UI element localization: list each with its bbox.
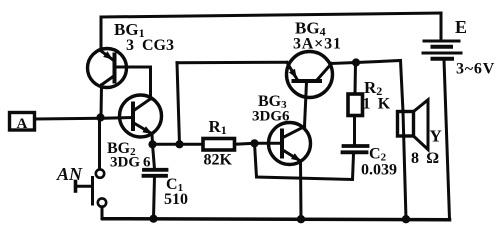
wire top rail bbox=[101, 13, 441, 17]
wire BG4 collector to speaker corner bbox=[332, 61, 404, 112]
svg-text:A: A bbox=[17, 116, 28, 132]
label 3 CG 3 bbox=[126, 37, 174, 54]
svg-text:82K: 82K bbox=[204, 152, 233, 169]
svg-text:E: E bbox=[455, 17, 467, 37]
svg-text:1 K: 1 K bbox=[363, 96, 391, 113]
wire AN upper lead bbox=[98, 118, 101, 169]
transistor BG2 bbox=[101, 95, 162, 137]
wire R2 top lead bbox=[354, 63, 358, 95]
terminal A box bbox=[10, 113, 35, 133]
node junction vertical / R1 rail bbox=[175, 140, 183, 148]
label C2 bbox=[369, 146, 387, 164]
label 3A x 31 bbox=[293, 36, 342, 53]
wire R1 right to BG3 base bbox=[235, 143, 269, 144]
label 3DG6 BG2 bbox=[110, 155, 151, 171]
transistor BG3 bbox=[269, 123, 311, 165]
wire BG1 base to BG2 collector bbox=[127, 67, 151, 99]
wire BG3 emitter to ground bbox=[299, 161, 303, 219]
label Y bbox=[430, 127, 442, 146]
label R2 bbox=[364, 78, 382, 98]
svg-text:3DG6: 3DG6 bbox=[252, 109, 290, 125]
wire bottom rail (ground return) bbox=[103, 219, 450, 220]
label 510 bbox=[164, 191, 188, 208]
resistor R2 bbox=[348, 94, 363, 116]
label 82K bbox=[204, 152, 233, 169]
label 0.039 bbox=[361, 162, 397, 179]
transistor BG1 bbox=[88, 49, 127, 88]
label BG2 bbox=[107, 140, 136, 158]
label 8 ohm bbox=[411, 150, 439, 167]
label 3DG6 BG3 bbox=[252, 109, 290, 125]
node junction speaker on bottom rail bbox=[402, 215, 410, 223]
svg-text:3 CG3: 3 CG3 bbox=[126, 37, 174, 54]
svg-text:510: 510 bbox=[164, 191, 188, 208]
label 1 K bbox=[363, 96, 391, 113]
switch AN bbox=[76, 169, 107, 218]
svg-text:0.039: 0.039 bbox=[361, 162, 397, 179]
wire collector rail left (y62) bbox=[177, 61, 287, 65]
label C1 bbox=[166, 176, 183, 194]
svg-text:8 Ω: 8 Ω bbox=[411, 150, 439, 167]
svg-text:3A×31: 3A×31 bbox=[293, 36, 342, 53]
node junction BG3 emitter on bottom rail bbox=[297, 215, 305, 223]
node junction C1 on bottom rail bbox=[149, 215, 157, 223]
wire A input bbox=[35, 117, 101, 121]
node junction BG3 base / feedback bbox=[250, 139, 258, 147]
wire BG1 top lead bbox=[100, 17, 103, 50]
wire battery bottom lead bbox=[444, 60, 450, 219]
node junction R2 top bbox=[352, 58, 360, 66]
node junction BG2 emitter / C1 / R1 rail bbox=[148, 140, 156, 148]
speaker Y bbox=[398, 100, 429, 219]
label BG1 bbox=[114, 20, 145, 40]
label AN bbox=[56, 164, 83, 184]
svg-text:Y: Y bbox=[430, 127, 442, 146]
capacitor C1 bbox=[144, 144, 167, 218]
label R1 bbox=[209, 117, 227, 137]
wire BG1 collector lead down bbox=[100, 85, 104, 117]
wire R1 rail left segment bbox=[153, 143, 204, 146]
wire corner down to R1 junction bbox=[177, 63, 180, 145]
resistor R1 bbox=[203, 139, 235, 151]
battery E bbox=[423, 41, 461, 59]
transistor BG4 bbox=[287, 52, 333, 98]
capacitor C2 bbox=[343, 146, 368, 152]
label 3~6V bbox=[456, 61, 495, 78]
label E bbox=[455, 17, 467, 37]
wire battery top lead bbox=[440, 13, 443, 40]
svg-text:3~6V: 3~6V bbox=[456, 61, 495, 78]
svg-text:AN: AN bbox=[56, 164, 83, 184]
wire BG2 emitter lead bbox=[151, 134, 155, 145]
label BG4 bbox=[295, 19, 326, 39]
wire R2 to C2 bbox=[353, 116, 356, 145]
wire feedback down-right to C2 bbox=[255, 143, 354, 179]
label BG3 bbox=[258, 93, 287, 111]
wire BG4 base to BG3 collector bbox=[305, 82, 307, 127]
node junction A / BG1 / BG2 base / AN bbox=[96, 113, 104, 121]
svg-text:R1: R1 bbox=[209, 117, 227, 137]
